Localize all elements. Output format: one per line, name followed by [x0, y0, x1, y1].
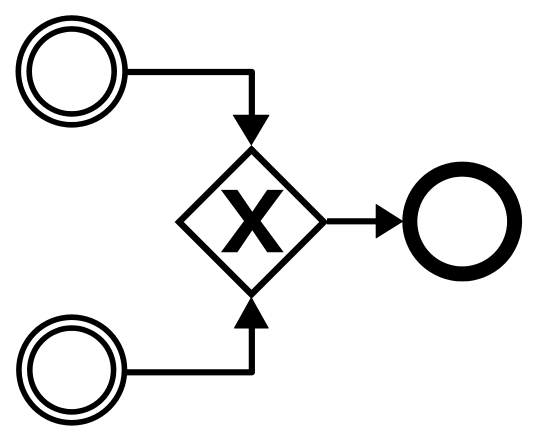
event E3 (right end event, thick circle): [410, 169, 515, 274]
arrowhead A3 (right, into end event): [376, 205, 402, 238]
wire W1 (from E1 right, then down to gateway top): [127, 72, 252, 117]
arrowhead A2 (up, into gateway bottom): [235, 298, 269, 328]
event E2 (bottom-left intermediate event, double circle): [19, 317, 125, 423]
arrowhead A1 (down, into gateway top): [233, 115, 269, 145]
wire W3 (gateway right to end event): [327, 218, 378, 224]
wire W2 (from E2 right, then up to gateway bottom): [127, 327, 252, 372]
X marker of gateway G1: [221, 190, 284, 252]
event E1 (top-left intermediate event, double circle): [18, 18, 125, 125]
gateway G1 (XOR diamond): [179, 150, 324, 295]
